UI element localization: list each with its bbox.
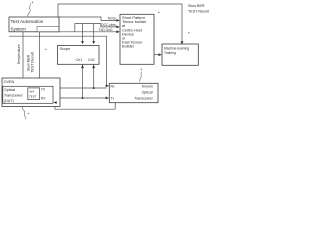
label Slow BER TEST Result (top right) (188, 4, 209, 14)
box U7 Known Optical Transceiver (109, 83, 158, 102)
svg-text:Temperature: Temperature (17, 44, 21, 64)
svg-text:TEST: TEST (29, 94, 37, 98)
junction dot ch2 tap (93, 87, 95, 89)
wire slow BER result down to DUT module (39, 32, 41, 88)
small module box inside DUT (28, 88, 40, 100)
svg-text:Optical: Optical (4, 88, 15, 92)
svg-text:Ch2: Ch2 (88, 58, 95, 62)
svg-text:System: System (11, 26, 26, 31)
svg-text:Slow BER: Slow BER (188, 4, 205, 8)
box U2 Scope (58, 46, 100, 65)
wire return loop known transceiver to DUT (54, 103, 115, 110)
svg-text:(DUT): (DUT) (4, 99, 14, 103)
svg-text:Transceiver: Transceiver (4, 94, 23, 98)
arrowhead scope ch1 top (81, 41, 84, 44)
svg-text:TxD GxD: TxD GxD (99, 28, 113, 32)
wire OCC pins input (59, 24, 119, 32)
svg-text:Temp: Temp (108, 16, 116, 20)
wire TAS to known transceiver (9, 36, 108, 86)
svg-text:Builder: Builder (122, 44, 135, 49)
box U1 Test Automation System (9, 17, 59, 32)
svg-text:OCC pins: OCC pins (101, 23, 116, 27)
arrowhead RX into known transceiver (106, 97, 109, 100)
svg-text:*: * (32, 1, 34, 6)
arrowhead scope ch1 bottom up (81, 65, 84, 68)
squiggle callout top left (22, 4, 141, 120)
arrowhead return into DUT (53, 101, 56, 104)
arrowhead scope ch2 top (92, 41, 95, 44)
wire temp input to tensor builder (59, 17, 119, 20)
wire scope ch1 tap (82, 65, 84, 98)
svg-text:Known: Known (142, 84, 153, 88)
svg-text:Tensor builder: Tensor builder (122, 19, 147, 24)
svg-text:Rx: Rx (111, 84, 115, 88)
box U4 Machine learning Training (162, 44, 198, 65)
svg-text:*: * (188, 31, 190, 36)
sub-box inside TAS (37, 27, 59, 32)
wire scope ch1 drop (82, 24, 84, 44)
arrowhead TX into known transceiver (106, 84, 109, 87)
svg-text:4x4: 4x4 (29, 89, 34, 93)
svg-text:Training: Training (164, 51, 176, 55)
svg-text:Optical: Optical (142, 90, 153, 94)
box U6 Optical Transceiver DUT (3, 86, 53, 103)
arrowhead into ML box top (181, 41, 184, 44)
wire temperature down to oven (22, 32, 24, 78)
arrowhead Temp into tensor builder (116, 19, 119, 22)
svg-text:OVEN: OVEN (4, 80, 15, 84)
svg-text:Ch1: Ch1 (76, 58, 83, 62)
svg-text:TEST Result: TEST Result (188, 10, 209, 14)
wire tensor builder to ML training (154, 54, 161, 56)
svg-text:*: * (158, 11, 160, 16)
wire TxD input (75, 31, 119, 33)
svg-text:Transceiver: Transceiver (134, 96, 153, 100)
wire TX line DUT to known transceiver (53, 87, 107, 89)
wire A: TAS top to ML training box top (58, 4, 182, 43)
box U5 OVEN (2, 78, 60, 107)
svg-text:*: * (45, 48, 47, 53)
svg-text:*: * (141, 68, 143, 73)
junction dot ch1 tap (82, 97, 84, 99)
wire RX line DUT to known transceiver (53, 97, 108, 99)
svg-text:*: * (28, 112, 30, 117)
svg-text:TEST Result: TEST Result (31, 52, 35, 72)
squiggle callout bottom (22, 107, 26, 120)
arrowhead into ML box left (158, 53, 161, 56)
arrowhead TxD into tensor builder (116, 30, 119, 33)
wire scope ch2 drop (93, 24, 95, 44)
svg-text:Tx: Tx (111, 96, 115, 100)
svg-text:Machine learning: Machine learning (164, 46, 189, 50)
arrowhead scope ch2 bottom up (92, 65, 95, 68)
arrowhead OCC into tensor builder (116, 26, 119, 29)
wire scope ch2 tap (93, 65, 95, 88)
box U3 Short Pattern Tensor builder (120, 14, 154, 64)
svg-text:Test Automation: Test Automation (11, 19, 44, 24)
svg-text:Scope: Scope (60, 47, 71, 51)
squiggle callout above known transceiver (140, 72, 142, 83)
